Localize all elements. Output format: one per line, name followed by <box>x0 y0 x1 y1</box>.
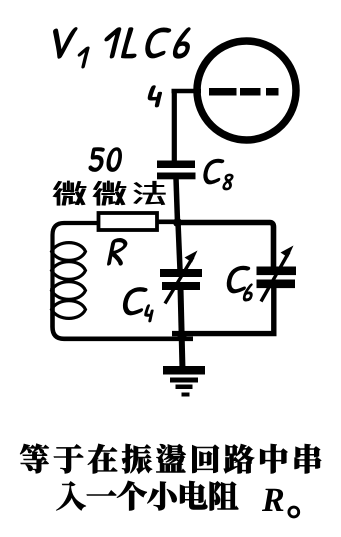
wire junction to C4 <box>178 222 180 270</box>
wire C4 to ground stem <box>181 288 183 370</box>
inductor L loop 3 <box>52 282 86 300</box>
wire pin4 horizontal <box>172 89 202 94</box>
wire R right lead <box>157 220 178 225</box>
wire below C6 to bottom <box>172 287 274 334</box>
tube grid dashed bar <box>209 88 279 96</box>
node bottom junction <box>178 332 187 341</box>
label C4 subscript 4 <box>145 305 154 322</box>
label pin 4 <box>148 86 162 107</box>
label 1LC6 tube type <box>105 28 190 59</box>
ground symbol <box>163 366 205 397</box>
capacitor C4 arrow <box>165 251 198 304</box>
caption full stop (ring) <box>289 507 299 517</box>
wire R left lead to coil top <box>53 223 100 292</box>
resistor R body <box>99 213 158 230</box>
capacitor C4 bottom plate <box>162 282 200 290</box>
label V1 subscript 1 <box>78 47 89 68</box>
capacitor C6 top plate <box>257 267 297 276</box>
caption line 1 <box>20 444 321 474</box>
label C8 subscript 8 <box>223 174 233 190</box>
wire C8 to junction <box>176 178 178 222</box>
capacitor C4 top plate <box>160 269 202 277</box>
capacitor C8 bottom plate <box>157 173 196 180</box>
capacitor C8 top plate <box>157 161 195 169</box>
inductor L loop 4 <box>52 301 86 319</box>
inductor L loop 2 <box>52 262 86 280</box>
wire top of C6 branch <box>178 223 274 269</box>
tube envelope V1 (circle) <box>197 41 296 140</box>
label C8 <box>204 159 224 184</box>
wire pin4 vertical down to C8 <box>172 89 177 162</box>
label V1 (tube designator) <box>53 28 77 59</box>
caption line 2 hanzi <box>56 481 238 511</box>
label C6 subscript 6 <box>243 284 252 301</box>
label R <box>107 238 127 265</box>
capacitor C6 arrow <box>261 246 294 302</box>
node junction R/C8/C6-branch <box>173 218 182 227</box>
label C4 <box>123 288 147 316</box>
label 微微法 (picofarad) <box>53 181 165 205</box>
wire coil bottom to bottom wire <box>53 288 194 339</box>
caption R (italic serif) <box>262 489 283 511</box>
inductor L loop 1 <box>52 243 86 261</box>
capacitor C6 bottom plate <box>257 280 296 289</box>
label 50 (value) <box>89 148 122 172</box>
label C6 <box>227 266 250 293</box>
